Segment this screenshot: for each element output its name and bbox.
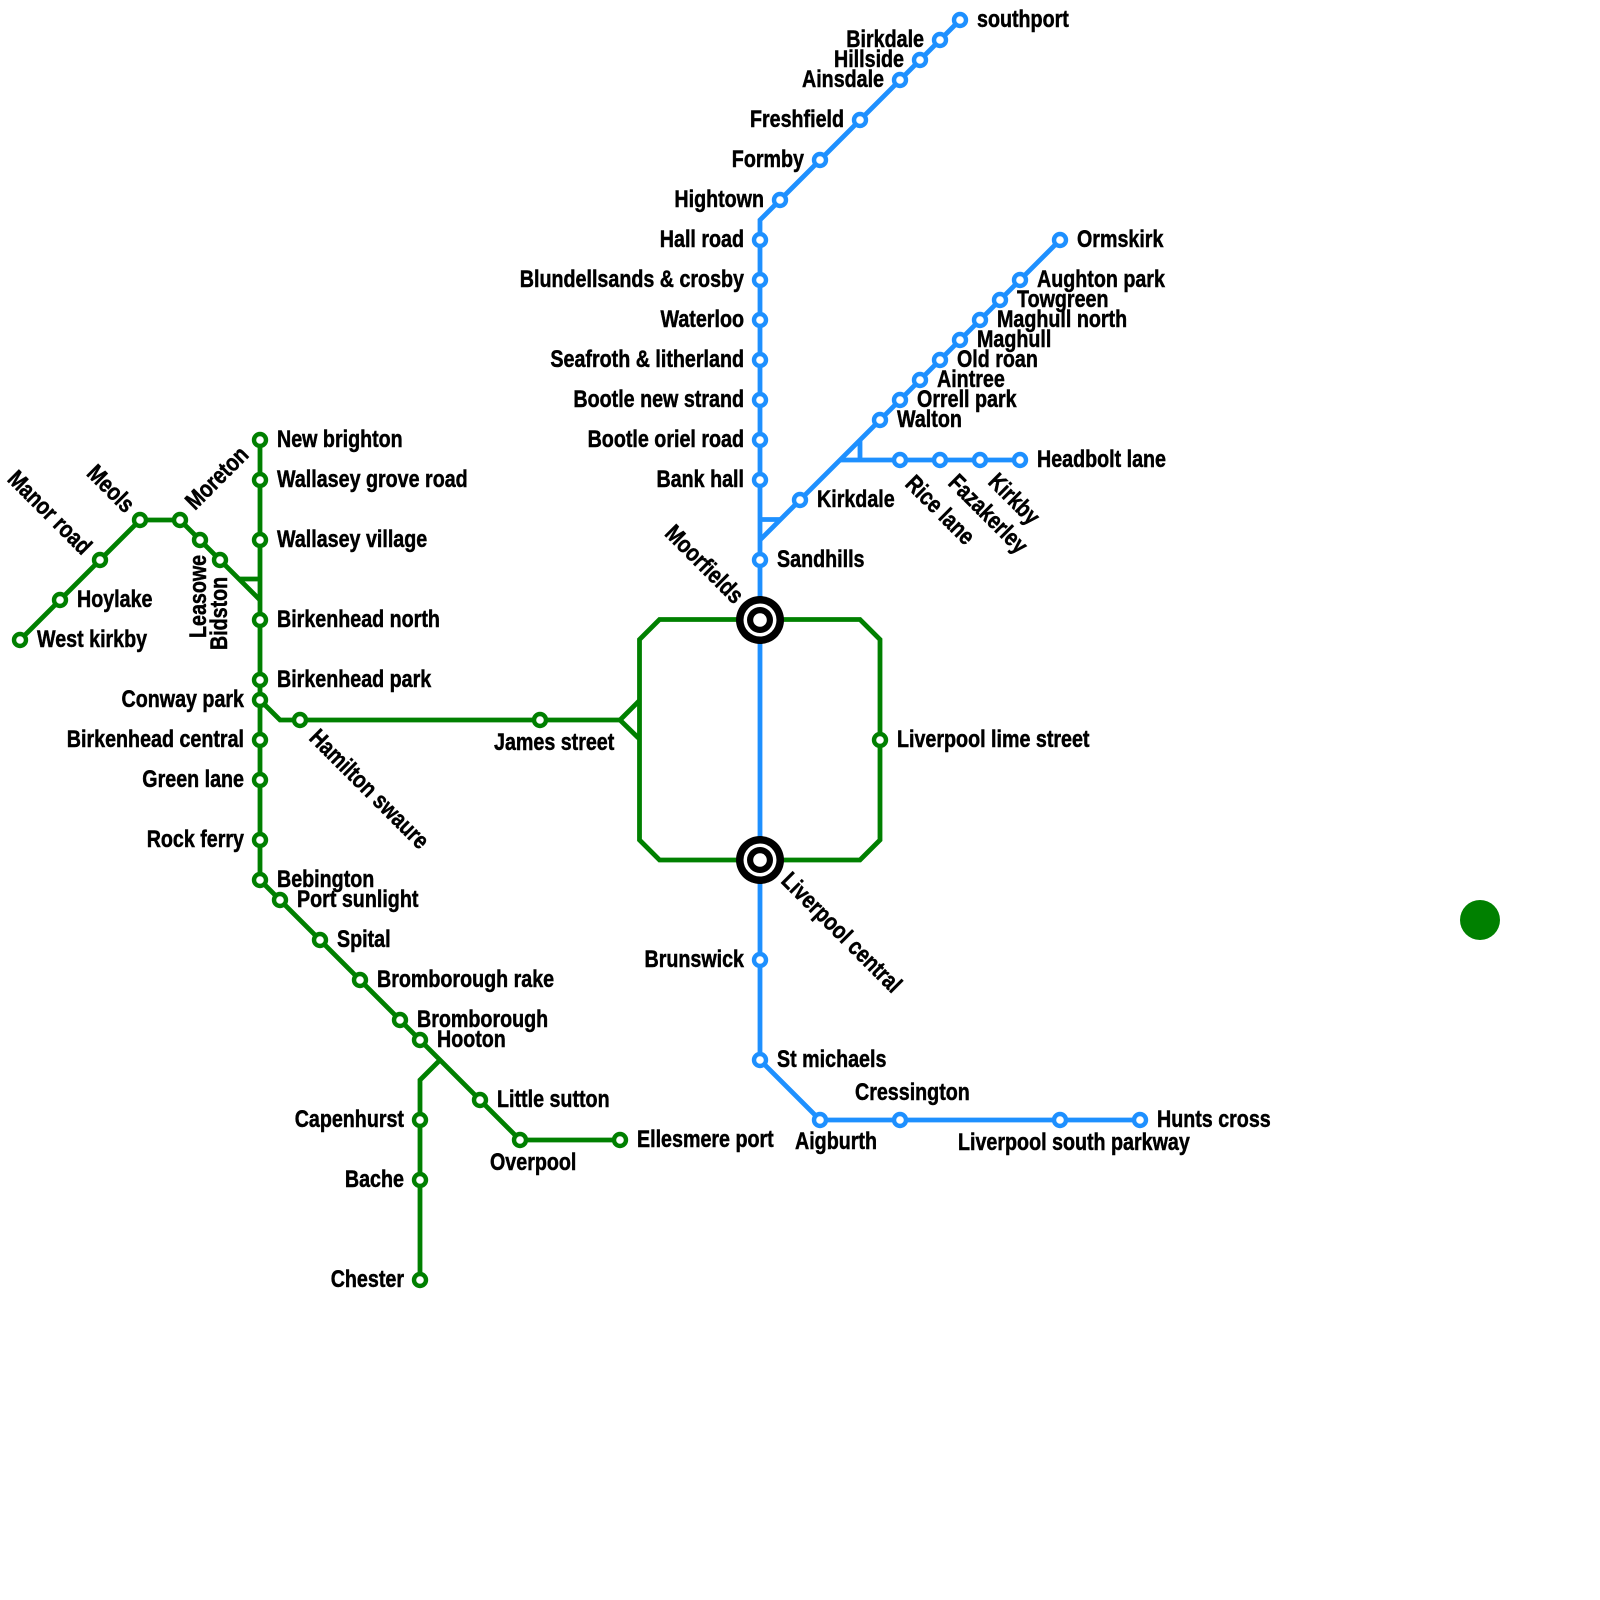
junction chord at bidston [239, 577, 260, 582]
station Fazakerley [934, 454, 946, 466]
station Leasowe [194, 534, 206, 546]
junction chord at kirkby branch [858, 440, 863, 460]
station Seafroth & litherland [754, 354, 766, 366]
station Spital [314, 934, 326, 946]
svg-text:Capenhurst: Capenhurst [295, 1106, 404, 1133]
station Formby [814, 154, 826, 166]
station Waterloo [754, 314, 766, 326]
station Wallasey village [254, 534, 266, 546]
station Port sunlight [274, 894, 286, 906]
station Hillside [914, 54, 926, 66]
station Aintree [914, 374, 926, 386]
station West kirkby [14, 634, 26, 646]
svg-text:Sandhills: Sandhills [777, 546, 865, 573]
station Manor road [94, 554, 106, 566]
station Blundellsands & crosby [754, 274, 766, 286]
station Ormskirk [1054, 234, 1066, 246]
station Freshfield [854, 114, 866, 126]
station Orrell park [894, 394, 906, 406]
green chester branch [420, 1060, 440, 1280]
station Hunts cross [1134, 1114, 1146, 1126]
svg-text:Bache: Bache [345, 1166, 404, 1193]
svg-text:Walton: Walton [897, 406, 962, 433]
svg-text:Spital: Spital [337, 926, 391, 953]
station Hall road [754, 234, 766, 246]
station Capenhurst [414, 1114, 426, 1126]
station Maghull north [974, 314, 986, 326]
svg-text:Bromborough rake: Bromborough rake [377, 966, 554, 993]
station Bootle oriel road [754, 434, 766, 446]
svg-text:Bank hall: Bank hall [657, 466, 745, 493]
svg-text:Freshfield: Freshfield [750, 106, 844, 133]
station Sandhills [754, 554, 766, 566]
green main line new brighton - ellesmere port [260, 440, 620, 1140]
svg-text:Ainsdale: Ainsdale [802, 66, 884, 93]
station Overpool [514, 1134, 526, 1146]
green west kirkby line [20, 520, 260, 640]
svg-text:southport: southport [977, 6, 1069, 33]
station Kirkby [974, 454, 986, 466]
svg-text:Bidston: Bidston [206, 577, 233, 650]
station Birkenhead north [254, 614, 266, 626]
station Headbolt lane [1014, 454, 1026, 466]
station Liverpool lime street [874, 734, 886, 746]
svg-text:Ellesmere port: Ellesmere port [637, 1126, 774, 1153]
station Bidston [214, 554, 226, 566]
svg-text:Headbolt lane: Headbolt lane [1037, 446, 1166, 473]
svg-text:Wallasey grove road: Wallasey grove road [277, 466, 468, 493]
station Little sutton [474, 1094, 486, 1106]
station New brighton [254, 434, 266, 446]
blue northern line: southport - hunts cross [760, 20, 1140, 1120]
svg-text:Hooton: Hooton [437, 1026, 506, 1053]
station Birkenhead park [254, 674, 266, 686]
green conway park to loop link [260, 700, 620, 720]
station Bromborough [394, 1014, 406, 1026]
svg-text:Rock ferry: Rock ferry [147, 826, 245, 853]
svg-text:Brunswick: Brunswick [645, 946, 745, 973]
station Bromborough rake [354, 974, 366, 986]
green city loop [640, 620, 881, 861]
station Bootle new strand [754, 394, 766, 406]
station Wallasey grove road [254, 474, 266, 486]
station Maghull [954, 334, 966, 346]
station James street [534, 714, 546, 726]
svg-text:Kirkdale: Kirkdale [817, 486, 895, 513]
svg-text:Port sunlight: Port sunlight [297, 886, 418, 913]
svg-text:Liverpool lime street: Liverpool lime street [897, 726, 1090, 753]
station St michaels [754, 1054, 766, 1066]
station Aughton park [1014, 274, 1026, 286]
station Ellesmere port [614, 1134, 626, 1146]
svg-text:Wallasey village: Wallasey village [277, 526, 427, 553]
station Walton [874, 414, 886, 426]
station Kirkdale [794, 494, 806, 506]
svg-text:James street: James street [494, 729, 614, 756]
station Old roan [934, 354, 946, 366]
svg-text:Seafroth & litherland: Seafroth & litherland [550, 346, 744, 373]
station Rock ferry [254, 834, 266, 846]
station Bank hall [754, 474, 766, 486]
svg-text:Chester: Chester [331, 1266, 404, 1293]
blue ormskirk branch [760, 240, 1060, 540]
svg-text:Birkenhead north: Birkenhead north [277, 606, 440, 633]
svg-text:Aigburth: Aigburth [795, 1128, 877, 1155]
svg-text:Bootle oriel road: Bootle oriel road [588, 426, 744, 453]
svg-text:Formby: Formby [732, 146, 805, 173]
station Hoylake [54, 594, 66, 606]
lone green dot [1460, 900, 1500, 940]
svg-text:Liverpool south parkway: Liverpool south parkway [958, 1129, 1190, 1156]
Moorfields interchange [736, 596, 784, 644]
station southport [954, 14, 966, 26]
station Bebington [254, 874, 266, 886]
svg-text:St michaels: St michaels [777, 1046, 886, 1073]
station Brunswick [754, 954, 766, 966]
svg-text:Little sutton: Little sutton [497, 1086, 610, 1113]
station Ainsdale [894, 74, 906, 86]
svg-text:Birkenhead central: Birkenhead central [67, 726, 244, 753]
station Birkdale [934, 34, 946, 46]
station Cressington [894, 1114, 906, 1126]
loop junction upper diagonal [620, 701, 640, 721]
station Hamilton swaure [294, 714, 306, 726]
svg-text:Birkenhead park: Birkenhead park [277, 666, 432, 693]
station Aigburth [814, 1114, 826, 1126]
station Birkenhead central [254, 734, 266, 746]
station Hooton [414, 1034, 426, 1046]
svg-text:Hoylake: Hoylake [77, 586, 153, 613]
station Meols [134, 514, 146, 526]
svg-text:Hightown: Hightown [674, 186, 764, 213]
svg-text:Hall road: Hall road [660, 226, 744, 253]
svg-text:Cressington: Cressington [855, 1079, 970, 1106]
svg-text:Blundellsands & crosby: Blundellsands & crosby [520, 266, 745, 293]
Liverpool central interchange [736, 836, 784, 884]
svg-text:Overpool: Overpool [490, 1149, 576, 1176]
station Chester [414, 1274, 426, 1286]
station Liverpool south parkway [1054, 1114, 1066, 1126]
station Rice lane [894, 454, 906, 466]
svg-text:Waterloo: Waterloo [661, 306, 745, 333]
station Conway park [254, 694, 266, 706]
svg-text:Green lane: Green lane [142, 766, 244, 793]
loop junction lower diagonal [620, 720, 640, 739]
station Bache [414, 1174, 426, 1186]
svg-text:Conway park: Conway park [122, 686, 245, 713]
junction chord at bank hall [760, 517, 781, 522]
station Moreton [174, 514, 186, 526]
svg-text:Bootle new strand: Bootle new strand [573, 386, 744, 413]
svg-text:New brighton: New brighton [277, 426, 403, 453]
svg-text:West kirkby: West kirkby [37, 626, 148, 653]
station Green lane [254, 774, 266, 786]
svg-text:Ormskirk: Ormskirk [1077, 226, 1164, 253]
station Hightown [774, 194, 786, 206]
station Towgreen [994, 294, 1006, 306]
blue kirkby branch [840, 458, 1020, 463]
